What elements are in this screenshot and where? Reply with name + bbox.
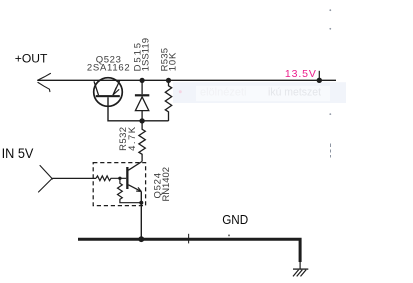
ground symbol bbox=[293, 262, 308, 276]
node: base/diode/R535/R532 junction bbox=[139, 118, 144, 123]
label R535 10K bbox=[159, 48, 178, 72]
label R532 4.7K bbox=[118, 126, 138, 151]
label D515 1SS119 bbox=[133, 38, 152, 72]
svg-text:ikú metszet: ikú metszet bbox=[268, 87, 321, 99]
svg-text:1SS119: 1SS119 bbox=[140, 38, 151, 72]
digital transistor Q524 package outline (dashed box) bbox=[93, 163, 145, 206]
wire: 13.5V stub bbox=[318, 71, 320, 80]
svg-text:GND: GND bbox=[222, 212, 248, 227]
node: diode top junction bbox=[140, 78, 145, 83]
+OUT connector arrow (hand drawn) bbox=[38, 73, 51, 91]
node: R535 top junction bbox=[166, 78, 171, 83]
wire: Q524 emitter down to ground bus bbox=[140, 191, 142, 239]
wire: IN 5V to Q524 input resistor bbox=[52, 177, 96, 179]
svg-text:10K: 10K bbox=[168, 52, 179, 71]
svg-text:IN 5V: IN 5V bbox=[2, 145, 34, 161]
svg-text:RN1402: RN1402 bbox=[161, 167, 172, 202]
svg-text:2SA1162: 2SA1162 bbox=[87, 62, 130, 73]
wire: +13.5V top rail bbox=[38, 79, 337, 81]
wire: ground bus bbox=[78, 239, 300, 262]
resistor: Q524 base-emitter resistor bbox=[118, 178, 142, 202]
diode D515 bbox=[135, 80, 149, 121]
resistor R535 bbox=[165, 80, 171, 121]
svg-text:4.7K: 4.7K bbox=[127, 126, 138, 151]
node: Q524 emitter / resistor junction bbox=[139, 201, 143, 205]
node: emitter-bus junction bbox=[138, 236, 144, 242]
transistor Q524 (NPN) bbox=[126, 162, 142, 192]
svg-text:+OUT: +OUT bbox=[15, 52, 48, 66]
svg-text:13.5V: 13.5V bbox=[285, 68, 316, 80]
node: Q524 base node bbox=[118, 177, 121, 180]
decorative background artifacts (watermark band, tooltip, faint dots) bbox=[173, 9, 346, 243]
node: 13.5V rail end bbox=[317, 78, 322, 83]
resistor: Q524 input resistor bbox=[96, 176, 126, 181]
resistor R532 bbox=[139, 121, 145, 162]
IN 5V connector arrow (hand drawn) bbox=[39, 166, 53, 193]
svg-text:elölnézeti: elölnézeti bbox=[200, 87, 246, 99]
transistor Q523 (PNP) bbox=[94, 78, 123, 107]
wire: Q523 base to diode/resistor bottom node bbox=[108, 97, 169, 121]
label Q524 RN1402 bbox=[152, 167, 172, 202]
